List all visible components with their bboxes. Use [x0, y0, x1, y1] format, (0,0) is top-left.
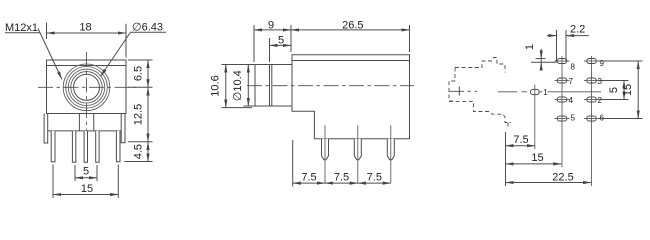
- pin1 column line: [534, 85, 536, 150]
- svg-text:∅10.4: ∅10.4: [232, 70, 244, 101]
- centerline tick: [458, 87, 460, 96]
- svg-text:15: 15: [81, 183, 93, 195]
- dia6.43 leader: [101, 32, 167, 76]
- pin 3 centerline: [390, 125, 392, 183]
- dim 5: [270, 44, 292, 46]
- pad 2: [584, 96, 603, 105]
- svg-text:5: 5: [608, 87, 620, 93]
- dim 2.2 extension lines: [556, 30, 558, 62]
- svg-text:1: 1: [543, 88, 548, 97]
- pin C: [84, 131, 87, 162]
- dim 15 extension lines: [52, 165, 54, 199]
- pin1 row line: [498, 91, 517, 93]
- dim 15 right: [637, 61, 639, 119]
- side pin 2: [354, 139, 361, 160]
- dim 4.5: [147, 142, 149, 162]
- dim 6.5: [147, 60, 149, 87]
- threaded barrel: [255, 65, 292, 107]
- body top inner line: [292, 60, 410, 62]
- dim dia 10.4: [247, 65, 249, 107]
- pad 7: [555, 77, 574, 86]
- svg-text:4.5: 4.5: [133, 144, 145, 159]
- right dims extension lines: [598, 60, 643, 62]
- dim 7.5 b: [325, 182, 358, 184]
- thread circle 2: [66, 67, 108, 109]
- svg-text:8: 8: [571, 63, 576, 72]
- pin 2 centerline: [357, 125, 359, 183]
- pin B: [72, 131, 75, 162]
- dim 7.5 bottom: [506, 145, 536, 147]
- bottom dims extension line left: [292, 140, 294, 187]
- dim 10.6: [225, 65, 227, 108]
- jack hole circle: [74, 74, 100, 100]
- svg-text:26.5: 26.5: [342, 19, 363, 31]
- thread circle 4: [71, 72, 102, 103]
- dim 15 bottom: [506, 163, 562, 165]
- svg-text:2.2: 2.2: [570, 23, 585, 35]
- dim 5 bottom extension lines: [74, 165, 76, 181]
- svg-text:9: 9: [268, 19, 274, 31]
- pad 4: [555, 96, 574, 105]
- svg-text:7: 7: [569, 77, 574, 86]
- dim 5 extension line: [269, 38, 271, 62]
- pin 1 centerline: [324, 125, 326, 183]
- dia 10.4 extension lines: [244, 64, 257, 66]
- pin D: [96, 131, 99, 162]
- svg-text:5: 5: [278, 35, 284, 47]
- bottom extension lines: [505, 132, 507, 186]
- dashed notch end: [507, 123, 509, 130]
- dim 18: [47, 32, 127, 34]
- dim 18 extension lines: [46, 23, 48, 40]
- dashed body outline bottom: [449, 101, 511, 122]
- dim 15: [53, 194, 118, 196]
- housing top inner line: [47, 65, 127, 67]
- dim 2.2 arrows outside: [547, 35, 557, 37]
- svg-text:1: 1: [524, 44, 536, 50]
- pin A: [51, 131, 55, 162]
- pad 5: [555, 114, 576, 123]
- pin 1 pad: [531, 89, 540, 94]
- svg-text:22.5: 22.5: [552, 171, 573, 183]
- svg-text:M12x1: M12x1: [5, 22, 38, 34]
- footprint centerline: [449, 90, 477, 92]
- dim 9: [254, 29, 291, 31]
- svg-text:10.6: 10.6: [209, 75, 221, 96]
- svg-text:7.5: 7.5: [334, 172, 349, 184]
- svg-text:4: 4: [569, 96, 574, 105]
- housing body outline: [47, 60, 127, 114]
- svg-text:7.5: 7.5: [513, 134, 528, 146]
- horizontal centerline: [247, 85, 414, 87]
- horizontal centerline: [38, 86, 136, 88]
- body outline with notch: [292, 55, 410, 139]
- barrel collar line 1: [269, 65, 271, 107]
- svg-text:5: 5: [83, 166, 89, 178]
- svg-text:7.5: 7.5: [367, 172, 382, 184]
- svg-text:12.5: 12.5: [133, 104, 145, 125]
- vertical centerline: [86, 52, 88, 132]
- thread circle outer: [63, 64, 110, 111]
- base inner vertical left: [78, 114, 80, 131]
- svg-text:15: 15: [531, 152, 543, 164]
- svg-text:3: 3: [598, 77, 603, 86]
- pad 9: [584, 59, 605, 69]
- side pin 3: [387, 139, 394, 160]
- dim 5 bottom: [75, 177, 97, 179]
- pad 6: [584, 114, 605, 123]
- svg-text:2: 2: [598, 96, 603, 105]
- svg-text:15: 15: [622, 84, 634, 96]
- dim 5 right: [623, 81, 625, 100]
- dashed body outline top: [455, 58, 505, 73]
- thread circle 3: [68, 69, 104, 105]
- M12x1 leader: [5, 29, 62, 80]
- svg-text:9: 9: [600, 59, 605, 68]
- left mounting leg: [44, 114, 48, 144]
- svg-text:5: 5: [571, 114, 576, 123]
- dim 9 extension lines: [253, 25, 255, 62]
- pad 3: [584, 77, 603, 86]
- pad 8: [555, 59, 576, 72]
- right chain extension lines: [128, 59, 153, 61]
- dim 26.5: [291, 29, 410, 31]
- dim 7.5 a: [293, 182, 325, 184]
- pin1 row line right: [548, 91, 602, 93]
- side pin 1: [322, 139, 329, 160]
- dim 1 feature lines: [536, 58, 546, 60]
- dashed body outline nose: [449, 68, 455, 102]
- base block sides: [48, 130, 122, 132]
- left pad column line: [561, 56, 563, 167]
- svg-text:7.5: 7.5: [301, 172, 316, 184]
- barrel collar line 2: [271, 65, 273, 107]
- right pad column line: [591, 56, 593, 186]
- dim 7.5 c: [358, 182, 391, 184]
- pin E: [116, 131, 120, 162]
- svg-text:18: 18: [79, 22, 91, 34]
- dim 22.5 bottom: [506, 182, 592, 184]
- dim 1 arrows outside: [540, 49, 542, 59]
- svg-text:6.5: 6.5: [133, 66, 145, 81]
- dim 10.6 extension lines: [222, 64, 244, 66]
- dim 12.5: [147, 87, 149, 142]
- right mounting leg: [121, 114, 125, 143]
- base inner vertical right: [93, 114, 95, 131]
